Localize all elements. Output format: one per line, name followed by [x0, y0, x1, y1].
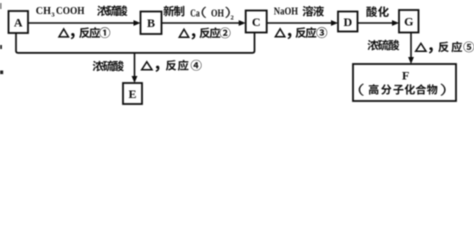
svg-text:F: F [402, 69, 409, 83]
svg-text:2: 2 [231, 14, 234, 21]
svg-text:G: G [404, 15, 413, 29]
svg-text:COOH: COOH [56, 5, 85, 17]
svg-text:E: E [128, 87, 136, 101]
svg-text:Ca: Ca [190, 8, 200, 19]
svg-text:CH: CH [36, 5, 52, 17]
svg-text:OH: OH [211, 8, 224, 19]
svg-text:A: A [14, 15, 23, 29]
svg-text:C: C [252, 15, 261, 29]
svg-text:NaOH: NaOH [274, 6, 298, 17]
svg-text:D: D [343, 15, 352, 29]
svg-text:B: B [147, 16, 155, 30]
